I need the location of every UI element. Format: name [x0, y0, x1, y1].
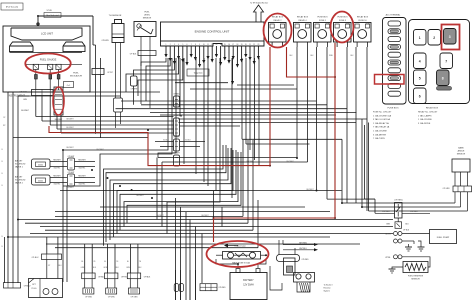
svg-text:SENSOR: SENSOR: [457, 154, 466, 156]
grounds under fuel pump: [408, 244, 410, 247]
svg-text:12: 12: [211, 44, 213, 46]
inline connector stack D: [174, 155, 180, 166]
svg-text:WHT/BLK: WHT/BLK: [410, 211, 418, 213]
svg-text:1 10A CRUISE: 1 10A CRUISE: [418, 118, 432, 121]
svg-text:BLK/WHT: BLK/WHT: [286, 161, 293, 163]
svg-text:OP: OP: [48, 265, 50, 267]
red wire path 3: [214, 43, 336, 242]
svg-text:INDICATOR: INDICATOR: [70, 75, 82, 78]
coil connector: [82, 273, 95, 279]
starter magnetic switch: [294, 273, 315, 283]
coil connector: [127, 273, 140, 279]
svg-text:RELAY BOX: RELAY BOX: [272, 16, 284, 19]
svg-text:(Fuel Vacuum): (Fuel Vacuum): [6, 7, 19, 9]
svg-text:3: 3: [174, 44, 175, 46]
vertical wires below main fuse left: [175, 270, 177, 300]
svg-text:OP GRN: OP GRN: [85, 297, 92, 299]
wire left bus 4: [4, 237, 6, 283]
svg-text:BLK/YEL: BLK/YEL: [54, 184, 61, 186]
svg-text:4: 4: [178, 44, 179, 46]
svg-text:8: 8: [442, 77, 444, 81]
key 3: [444, 29, 457, 45]
red highlight: relay 2 ellipse: [264, 14, 292, 48]
svg-text:AIR JET: AIR JET: [15, 160, 23, 163]
red wire path 1: [49, 47, 270, 166]
svg-text:OP/YEL: OP/YEL: [121, 277, 128, 279]
FLS connector bar: [138, 51, 156, 56]
svg-text:WHT/BLU: WHT/BLU: [299, 248, 307, 250]
upper staircase from ECU left pins: [141, 58, 166, 66]
svg-text:RELAY BOX: RELAY BOX: [297, 16, 309, 19]
gauge connector pins: [33, 64, 38, 69]
switch hatching: [300, 283, 302, 292]
svg-text:ANGLE: ANGLE: [458, 150, 465, 153]
svg-text:23: 23: [258, 44, 260, 46]
starter fuse link: [277, 255, 300, 262]
svg-text:4: 4: [419, 60, 421, 64]
svg-text:VALVE 2: VALVE 2: [15, 182, 24, 185]
svg-text:OP BLK: OP BLK: [173, 94, 180, 96]
svg-text:BLK/YEL: BLK/YEL: [54, 168, 61, 170]
svg-text:RED/WHT: RED/WHT: [53, 176, 60, 178]
svg-text:19: 19: [241, 44, 243, 46]
svg-text:BLU/WHT: BLU/WHT: [66, 127, 73, 129]
svg-text:SENSOR: SENSOR: [411, 279, 420, 281]
svg-text:9: 9: [199, 44, 200, 46]
horizontal bus band y85-140: [237, 84, 294, 86]
svg-text:BLK/WHT: BLK/WHT: [246, 161, 253, 163]
svg-text:(OP-RED): (OP-RED): [394, 200, 403, 202]
svg-text:OP GRN: OP GRN: [131, 297, 138, 299]
svg-text:00000: 00000: [38, 164, 43, 166]
svg-text:BANK: BANK: [458, 147, 464, 150]
svg-text:16: 16: [228, 44, 230, 46]
svg-text:OP BLK: OP BLK: [130, 54, 137, 56]
ECU right pins descending: [241, 58, 243, 139]
svg-text:OP/GRN: OP/GRN: [101, 40, 109, 42]
svg-text:2: 2: [170, 44, 171, 46]
svg-text:OP BLK: OP BLK: [403, 230, 410, 232]
svg-text:21: 21: [249, 44, 251, 46]
relay/fuse drop wires: [296, 47, 298, 158]
svg-text:AIR JET: AIR JET: [15, 176, 23, 179]
key 1: [414, 30, 427, 46]
svg-text:FUSE 3: FUSE 3: [339, 20, 347, 22]
fuel reserve sensor row: [394, 255, 398, 259]
svg-text:7: 7: [445, 60, 447, 64]
svg-text:12V 50AH: 12V 50AH: [243, 284, 254, 287]
circled connector below cluster: [54, 87, 63, 115]
svg-text:OP GRN: OP GRN: [443, 188, 450, 190]
svg-text:OP WHT: OP WHT: [173, 115, 180, 117]
svg-text:3 TAIL ILLUM 10A: 3 TAIL ILLUM 10A: [373, 118, 390, 121]
svg-text:1 10A CRUISE: 1 10A CRUISE: [373, 130, 387, 133]
svg-text:LCD UNIT: LCD UNIT: [41, 32, 53, 36]
key 4: [414, 53, 427, 69]
key 2: [428, 30, 441, 46]
svg-text:1: 1: [166, 44, 167, 46]
svg-text:To Alternator: To Alternator: [234, 245, 246, 248]
svg-text:18: 18: [237, 44, 239, 46]
top wire to fuel indicator: [38, 16, 93, 26]
svg-text:BLK/WHT: BLK/WHT: [96, 149, 103, 151]
fuel reserve sensor: [403, 262, 428, 273]
svg-text:INSTRUMENT: INSTRUMENT: [8, 94, 25, 98]
svg-text:8: 8: [195, 44, 196, 46]
svg-text:10: 10: [203, 44, 205, 46]
ECU box: [161, 22, 265, 41]
svg-text:OP-RED: OP-RED: [219, 287, 227, 289]
svg-text:To Starter /: To Starter /: [324, 284, 334, 287]
svg-text:3 15A METER: 3 15A METER: [373, 133, 387, 136]
svg-text:YE: YE: [139, 261, 141, 263]
svg-text:BLK/WHT: BLK/WHT: [66, 147, 73, 149]
svg-text:OP-BLU: OP-BLU: [32, 257, 39, 259]
svg-text:1 TAIL LAMPS: 1 TAIL LAMPS: [418, 114, 432, 117]
svg-text:RELAY BOX: RELAY BOX: [426, 107, 439, 110]
svg-text:System: System: [324, 290, 331, 293]
ground left of reserve sensor: [392, 267, 403, 269]
TH sensor inline connector: [114, 98, 123, 112]
svg-text:3 10A DRIVE: 3 10A DRIVE: [418, 122, 431, 125]
inline connector stack A: [174, 96, 180, 107]
svg-text:11: 11: [207, 44, 209, 46]
starter relay coil box: [284, 258, 296, 275]
svg-text:FUSE 1: FUSE 1: [319, 20, 327, 22]
gauge bar: [10, 52, 83, 54]
red highlight: small connector ellipse: [53, 87, 64, 115]
svg-text:WT/BL: WT/BL: [385, 257, 390, 259]
battery: [230, 273, 267, 300]
svg-text:RELAY No. CIRCUIT: RELAY No. CIRCUIT: [418, 111, 438, 114]
svg-text:17: 17: [232, 44, 234, 46]
gauge pods: [10, 42, 34, 52]
svg-text:7: 7: [191, 44, 192, 46]
wire left bus 2: [12, 92, 14, 283]
connector block bottom of cluster: [32, 90, 54, 96]
svg-text:3: 3: [449, 35, 451, 39]
svg-text:BLK/WHT: BLK/WHT: [156, 215, 163, 217]
svg-text:Reverse: Reverse: [324, 287, 331, 290]
red wire path 2: [287, 47, 336, 77]
svg-text:RELAY BOX: RELAY BOX: [357, 16, 369, 19]
svg-text:SOLENOID: SOLENOID: [15, 180, 26, 182]
svg-text:FUEL RESERVE: FUEL RESERVE: [408, 276, 424, 278]
red highlight: fuse 3 ellipse: [331, 12, 354, 43]
ECU drop verticals forming staircase: [63, 58, 168, 150]
svg-text:W/BL: W/BL: [329, 55, 333, 57]
long mesh horizontals lower (paired): [55, 211, 330, 213]
long arrow pin and y82.7 line: [232, 58, 234, 81]
svg-text:FUEL GAUGE: FUEL GAUGE: [40, 58, 57, 62]
svg-text:BLK/WHT: BLK/WHT: [66, 119, 73, 121]
LCD unit: [11, 28, 82, 40]
svg-text:LEVEL: LEVEL: [144, 15, 151, 17]
svg-text:14: 14: [220, 44, 222, 46]
ECU pin strip: [161, 41, 265, 46]
svg-text:BLK/WHT: BLK/WHT: [201, 215, 208, 217]
svg-text:SOLENOID: SOLENOID: [15, 164, 26, 166]
svg-text:7 10A TURN: 7 10A TURN: [373, 137, 385, 140]
instrument cluster box: [3, 26, 90, 92]
svg-text:FUSE BOX: FUSE BOX: [337, 17, 348, 19]
svg-text:YE: YE: [93, 261, 95, 263]
label To Ignition System: [187, 69, 209, 76]
svg-text:TH SENSOR: TH SENSOR: [109, 15, 122, 17]
svg-text:15: 15: [224, 44, 226, 46]
svg-text:VALVE 1: VALVE 1: [15, 166, 24, 169]
paired cascade P1: [104, 145, 224, 246]
svg-text:OP/BLU: OP/BLU: [24, 286, 31, 288]
svg-text:6: 6: [419, 95, 421, 99]
arrows to right top of battery: [283, 244, 314, 246]
red highlight: main fuse ellipse: [207, 241, 269, 267]
wire from circled connector: [56, 115, 58, 129]
connector square row2: [395, 222, 402, 229]
svg-text:7 TAIL RELAY 1A: 7 TAIL RELAY 1A: [373, 126, 390, 129]
inline connector stack C: [174, 139, 180, 151]
connector OP WT below instrument: [92, 69, 104, 75]
svg-text:5/TUB: 5/TUB: [46, 10, 52, 12]
svg-text:OP WHT: OP WHT: [131, 89, 138, 91]
svg-text:OP WHT: OP WHT: [173, 137, 180, 139]
svg-text:5: 5: [419, 77, 421, 81]
svg-text:BLK/WHT: BLK/WHT: [66, 187, 73, 189]
bank angle wire horizontals: [342, 202, 455, 204]
svg-text:SENSOR: SENSOR: [143, 18, 152, 20]
relay key panel: [409, 20, 470, 104]
wire mesh: instrument drop wires: [35, 96, 37, 117]
svg-text:6: 6: [187, 44, 188, 46]
svg-text:RED/WHT: RED/WHT: [78, 160, 85, 162]
label (Fuel Indicator): [44, 13, 61, 18]
svg-text:WHT/RED: WHT/RED: [299, 243, 308, 245]
svg-text:FUSE BOX: FUSE BOX: [387, 108, 399, 110]
svg-text:To Ignition: To Ignition: [193, 72, 202, 75]
svg-text:1 10A RELAY 5A: 1 10A RELAY 5A: [373, 122, 389, 125]
key 5: [414, 70, 427, 86]
svg-text:(Fuel Indicator): (Fuel Indicator): [46, 14, 59, 17]
svg-text:5: 5: [182, 44, 183, 46]
svg-text:FUSE BOX: FUSE BOX: [317, 17, 328, 19]
svg-text:2: 2: [433, 36, 435, 40]
svg-text:FUEL PUMP: FUEL PUMP: [437, 237, 450, 239]
red highlight: acc fuse rect: [375, 75, 405, 85]
inline pill connector mid-left: [131, 76, 138, 86]
svg-text:BATTERY: BATTERY: [243, 279, 254, 282]
key 7: [440, 53, 453, 69]
junction dots: [37, 15, 39, 17]
svg-text:ENGINE CONTROL UNIT: ENGINE CONTROL UNIT: [195, 30, 230, 34]
inline connector stack B: [174, 118, 180, 136]
svg-text:FUSE No. CIRCUIT: FUSE No. CIRCUIT: [373, 112, 392, 114]
svg-text:BL: BL: [104, 261, 106, 263]
verticals descending mid-right: [341, 139, 343, 203]
svg-text:OP WT: OP WT: [107, 72, 113, 74]
svg-text:BL/BLK: BL/BLK: [185, 140, 191, 142]
svg-text:RED/WHT: RED/WHT: [78, 176, 85, 178]
label top-left corner: [1, 3, 23, 10]
svg-text:20: 20: [245, 44, 247, 46]
ECU pins with arrows: [165, 46, 167, 54]
svg-text:BLK/YEL: BLK/YEL: [79, 168, 86, 170]
coil connector: [105, 273, 118, 279]
svg-text:Or-1: Or-1: [67, 85, 71, 87]
paired cascade P3: [117, 150, 233, 234]
svg-text:FUEL: FUEL: [73, 73, 79, 75]
left loop wires of starter area: [270, 266, 282, 290]
svg-text:OP GRN: OP GRN: [108, 297, 115, 299]
verticals to bottom components: [46, 237, 48, 254]
svg-text:1: 1: [419, 36, 421, 40]
wire left bus 1: [7, 92, 9, 283]
key 8: [437, 70, 450, 86]
svg-text:RELAY 2: RELAY 2: [273, 19, 282, 22]
red highlight: key 3 rect: [442, 25, 460, 50]
fuel pump: [430, 230, 457, 244]
svg-text:BL: BL: [81, 261, 83, 263]
svg-text:WHT/BLK: WHT/BLK: [382, 211, 390, 213]
svg-text:PLUG: PLUG: [32, 288, 37, 290]
dark bar under key 8: [437, 87, 452, 91]
svg-text:22: 22: [253, 44, 255, 46]
svg-text:RED/WHT: RED/WHT: [53, 160, 60, 162]
connector circles row3: [394, 232, 398, 236]
svg-text:OP-RED: OP-RED: [302, 259, 310, 261]
key 6: [414, 88, 427, 104]
wire left bus 3: [17, 96, 19, 283]
paired cascade P2: [110, 148, 228, 240]
svg-text:BL/BLK: BL/BLK: [163, 140, 169, 142]
svg-text:BL: BL: [127, 261, 129, 263]
red highlight: fuel gauge ellipse: [25, 54, 70, 74]
connector far bottom-left: [4, 283, 21, 289]
svg-text:YE: YE: [116, 261, 118, 263]
svg-text:BLK/WHT: BLK/WHT: [306, 189, 313, 191]
svg-text:BLK/YEL: BLK/YEL: [79, 184, 86, 186]
svg-text:WT: WT: [3, 125, 6, 127]
spark unit box: [29, 279, 63, 298]
svg-text:BLU/WHT: BLU/WHT: [21, 110, 29, 112]
svg-text:00000: 00000: [38, 180, 43, 182]
svg-text:BLK/WHT: BLK/WHT: [136, 195, 143, 197]
svg-text:OP/BLK: OP/BLK: [144, 277, 151, 279]
ECU arrow to TH warmer: [254, 5, 264, 22]
svg-text:OP: OP: [3, 117, 5, 119]
svg-text:FUSE 10: FUSE 10: [358, 20, 367, 22]
svg-text:FUEL: FUEL: [144, 12, 150, 14]
svg-text:RELAY 4: RELAY 4: [298, 19, 307, 22]
svg-text:ACC TERMINAL: ACC TERMINAL: [386, 14, 402, 17]
svg-text:To TH Stable Warmer: To TH Stable Warmer: [250, 2, 268, 5]
connector above spark unit: [42, 254, 62, 260]
paired cascade P4: [124, 152, 238, 227]
svg-text:13: 13: [216, 44, 218, 46]
svg-text:BL/GN: BL/GN: [385, 234, 391, 236]
svg-text:1 10A CRUISE 10A: 1 10A CRUISE 10A: [373, 114, 392, 117]
